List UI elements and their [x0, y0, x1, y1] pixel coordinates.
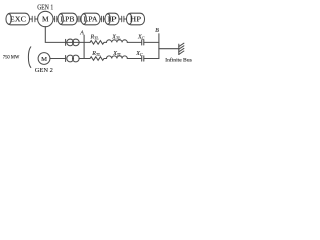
svg-text:GEN 2: GEN 2: [35, 67, 53, 74]
svg-text:XTL: XTL: [111, 34, 121, 40]
svg-text:EXC: EXC: [10, 15, 26, 24]
svg-text:XC: XC: [137, 34, 145, 40]
svg-text:IP: IP: [107, 15, 116, 24]
svg-text:Infinite Bus: Infinite Bus: [165, 57, 192, 64]
svg-text:RTL: RTL: [90, 34, 100, 40]
svg-text:XC: XC: [135, 51, 143, 57]
svg-text:LPA: LPA: [84, 15, 99, 24]
svg-text:HP: HP: [130, 15, 141, 24]
svg-text:750 MW: 750 MW: [3, 56, 20, 61]
svg-text:GEN 1: GEN 1: [37, 4, 53, 12]
svg-text:M: M: [41, 56, 47, 63]
svg-text:A: A: [79, 30, 84, 36]
svg-text:B: B: [155, 28, 159, 34]
svg-text:XTL: XTL: [112, 51, 122, 57]
svg-text:LPB: LPB: [61, 15, 75, 24]
svg-text:RTL: RTL: [91, 51, 101, 57]
svg-text:M: M: [42, 15, 49, 24]
